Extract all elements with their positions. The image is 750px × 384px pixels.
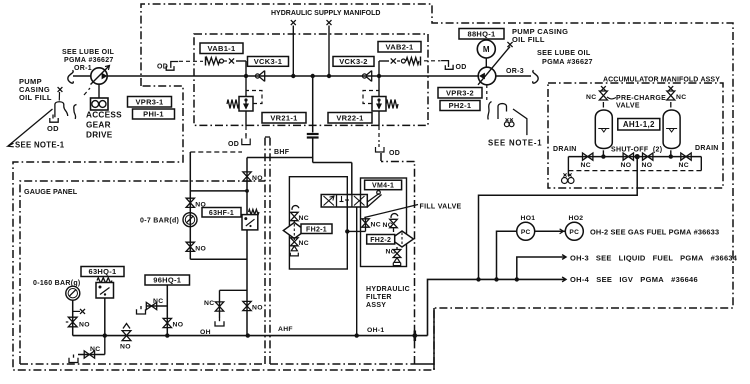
svg-text:NO: NO — [173, 322, 184, 329]
svg-text:HO1: HO1 — [521, 215, 536, 222]
svg-text:VR22-1: VR22-1 — [336, 113, 363, 122]
svg-text:NO: NO — [120, 344, 131, 351]
svg-text:0-160 BAR(g): 0-160 BAR(g) — [33, 280, 81, 287]
svg-text:GAUGE PANEL: GAUGE PANEL — [24, 187, 78, 196]
svg-text:NO: NO — [252, 175, 263, 182]
svg-text:NO: NO — [621, 162, 632, 169]
svg-text:NC: NC — [371, 222, 381, 229]
svg-text:NC: NC — [204, 300, 214, 307]
svg-text:ASSY: ASSY — [366, 302, 386, 309]
svg-text:SHUT-OFF (2): SHUT-OFF (2) — [611, 147, 662, 154]
svg-text:SEE NOTE-1: SEE NOTE-1 — [488, 139, 542, 148]
svg-text:OH: OH — [200, 329, 211, 336]
svg-text:PC: PC — [569, 229, 579, 236]
svg-text:NO: NO — [252, 305, 263, 312]
svg-text:PGMA #36627: PGMA #36627 — [542, 57, 593, 66]
svg-text:OD: OD — [389, 150, 400, 157]
svg-text:VALVE: VALVE — [616, 103, 640, 110]
svg-text:FILTER: FILTER — [366, 294, 392, 301]
svg-text:NO: NO — [195, 245, 206, 252]
svg-text:NC: NC — [153, 298, 163, 305]
svg-text:OH-3 SEE LIQUID FUEL P: OH-3 SEE LIQUID FUEL PGMA #36634 — [570, 254, 738, 263]
svg-text:NC: NC — [586, 94, 596, 101]
svg-text:PHI-1: PHI-1 — [143, 110, 164, 119]
svg-text:OIL FILL: OIL FILL — [19, 93, 52, 102]
svg-text:SEE LUBE OIL: SEE LUBE OIL — [62, 49, 115, 56]
svg-text:HO2: HO2 — [569, 215, 584, 222]
svg-text:NC: NC — [386, 249, 396, 256]
svg-text:DRAIN: DRAIN — [695, 145, 719, 152]
svg-text:ACCUMULATOR MANIFOLD ASSY: ACCUMULATOR MANIFOLD ASSY — [603, 77, 720, 84]
svg-text:SEE NOTE-1: SEE NOTE-1 — [15, 141, 65, 150]
svg-text:NC: NC — [299, 215, 309, 222]
svg-text:M: M — [483, 45, 490, 54]
svg-text:OR-1: OR-1 — [74, 65, 92, 72]
svg-text:0-7 BAR(d): 0-7 BAR(d) — [140, 218, 179, 225]
svg-text:VM4-1: VM4-1 — [372, 182, 394, 189]
svg-text:OD: OD — [47, 124, 59, 133]
svg-text:OH-1: OH-1 — [367, 327, 384, 334]
svg-text:NO: NO — [642, 162, 653, 169]
svg-text:AHF: AHF — [278, 326, 293, 333]
svg-text:OD: OD — [228, 141, 239, 148]
svg-text:OR-3: OR-3 — [506, 68, 524, 75]
svg-text:HYDRAULIC: HYDRAULIC — [366, 286, 410, 293]
svg-text:DRAIN: DRAIN — [553, 146, 577, 153]
svg-text:VAB1-1: VAB1-1 — [208, 44, 236, 53]
svg-text:NC: NC — [383, 222, 393, 229]
svg-text:NC: NC — [299, 240, 309, 247]
svg-text:63HQ-1: 63HQ-1 — [88, 267, 116, 276]
svg-text:NC: NC — [679, 162, 689, 169]
svg-text:VPR3-1: VPR3-1 — [135, 97, 163, 106]
svg-text:VCK3-1: VCK3-1 — [254, 57, 282, 66]
svg-text:HYDRAULIC SUPPLY MANIFOLD: HYDRAULIC SUPPLY MANIFOLD — [271, 10, 380, 17]
svg-text:DRIVE: DRIVE — [86, 131, 113, 140]
svg-text:NO: NO — [79, 322, 90, 329]
svg-text:OH-2 SEE GAS FUEL PGMA #36633: OH-2 SEE GAS FUEL PGMA #36633 — [590, 228, 719, 237]
svg-text:PH2-1: PH2-1 — [449, 101, 472, 110]
svg-text:NC: NC — [90, 346, 100, 353]
svg-text:AH1-1,2: AH1-1,2 — [623, 120, 655, 129]
svg-text:ACCESS: ACCESS — [86, 111, 122, 120]
svg-text:OH-4 SEE IGV PGMA #366: OH-4 SEE IGV PGMA #36646 — [570, 275, 698, 284]
svg-text:FH2-1: FH2-1 — [306, 226, 327, 233]
svg-text:OIL FILL: OIL FILL — [512, 35, 545, 44]
svg-text:VR21-1: VR21-1 — [270, 113, 297, 122]
svg-text:PGMA #36627: PGMA #36627 — [64, 57, 114, 64]
svg-text:VAB2-1: VAB2-1 — [386, 42, 414, 51]
svg-text:88HQ-1: 88HQ-1 — [467, 29, 495, 38]
svg-text:OD: OD — [456, 64, 467, 71]
svg-text:GEAR: GEAR — [86, 121, 111, 130]
svg-text:NC: NC — [676, 94, 686, 101]
svg-text:63HF-1: 63HF-1 — [209, 210, 234, 217]
svg-text:FH2-2: FH2-2 — [370, 237, 391, 244]
svg-text:VPR3-2: VPR3-2 — [446, 88, 474, 97]
svg-text:BHF: BHF — [274, 149, 290, 156]
svg-text:NC: NC — [581, 162, 591, 169]
svg-text:PRE-CHARGE: PRE-CHARGE — [616, 95, 666, 102]
svg-text:SEE LUBE OIL: SEE LUBE OIL — [537, 48, 591, 57]
svg-text:96HQ-1: 96HQ-1 — [153, 276, 181, 285]
svg-text:FILL VALVE: FILL VALVE — [420, 204, 462, 211]
svg-text:VCK3-2: VCK3-2 — [339, 57, 367, 66]
svg-text:PC: PC — [521, 229, 531, 236]
